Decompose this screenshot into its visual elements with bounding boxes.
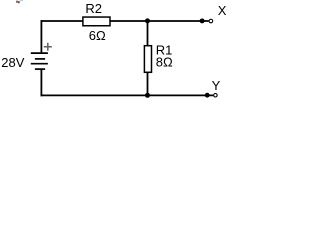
svg-text:28V: 28V xyxy=(1,55,24,70)
svg-text:8Ω: 8Ω xyxy=(156,55,173,70)
junction node bottom xyxy=(145,93,150,98)
svg-text:R2: R2 xyxy=(85,1,102,16)
resistor R1 body xyxy=(144,46,151,73)
battery 28V plates xyxy=(31,53,48,69)
wire bottom node: battery - to Y xyxy=(41,94,214,96)
resistor R2 body xyxy=(83,17,110,26)
artifact mark top-left xyxy=(16,0,23,3)
wire left vertical battery top lead xyxy=(40,20,42,53)
wire R1 branch bottom xyxy=(147,72,149,95)
wire R1 branch top xyxy=(147,21,149,46)
battery plus sign xyxy=(44,43,52,51)
wire top node: battery + to X xyxy=(41,20,209,22)
wire left vertical battery bottom lead xyxy=(40,69,42,96)
junction node top xyxy=(145,18,150,23)
svg-text:6Ω: 6Ω xyxy=(89,28,106,43)
terminal X open circle xyxy=(209,19,213,23)
node dot before X terminal xyxy=(200,18,205,23)
svg-text:X: X xyxy=(218,3,227,18)
terminal Y open circle xyxy=(214,94,218,98)
svg-text:Y: Y xyxy=(212,78,221,93)
node dot before Y terminal xyxy=(205,93,210,98)
